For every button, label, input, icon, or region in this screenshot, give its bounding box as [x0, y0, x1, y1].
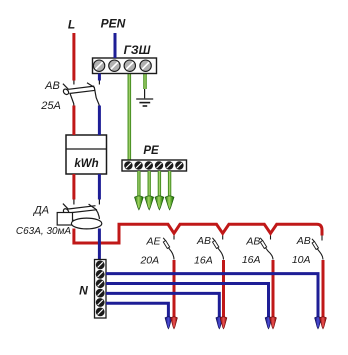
svg-text:10А: 10А — [292, 254, 311, 266]
svg-text:АВ: АВ — [196, 235, 211, 247]
wire N to circuit 3 — [106, 284, 269, 319]
arrow L circuit 3 — [270, 317, 277, 329]
actuator ring — [62, 88, 69, 96]
pole L top stub — [73, 81, 75, 85]
pole N top stub — [98, 200, 100, 205]
PE screw 5 — [165, 161, 173, 169]
pole L top stub — [73, 200, 75, 205]
arrow PE outgoing 1 — [135, 196, 144, 210]
ГЗШ screw terminal 2 — [109, 60, 120, 71]
test resistor box — [57, 213, 72, 226]
wire L phase feed (top) — [72, 33, 75, 81]
blade with release flag — [312, 239, 314, 242]
wire N breaker to kWh — [98, 106, 101, 136]
svg-text:25А: 25А — [40, 100, 61, 112]
pole N blade — [87, 83, 99, 106]
branch breaker АВ 16А (2) — [212, 234, 223, 260]
wire L branch 4 drop — [322, 260, 325, 318]
svg-text:L: L — [68, 18, 75, 32]
svg-text:ГЗШ: ГЗШ — [124, 43, 151, 57]
wire L distribution bus with branch taps — [118, 224, 323, 235]
arrow L circuit 1 — [171, 317, 178, 329]
wire PEN feed — [114, 33, 117, 58]
wire N to circuit 1 — [106, 303, 168, 318]
svg-text:АВ: АВ — [245, 236, 260, 248]
arrow N circuit 3 — [265, 317, 272, 329]
blade with release flag — [260, 238, 262, 241]
PE screw 2 — [134, 161, 142, 169]
svg-text:АЕ: АЕ — [145, 236, 161, 248]
pole N top stub — [98, 81, 100, 85]
PE screw 4 — [155, 161, 163, 169]
pole L lower lead — [70, 213, 74, 224]
wire L branch 3 drop — [272, 260, 275, 318]
pole N blade — [89, 204, 100, 219]
arrow L circuit 4 — [320, 317, 327, 329]
actuator ring — [62, 208, 69, 216]
wire N kWh to RCD — [98, 174, 101, 200]
svg-text:PE: PE — [143, 145, 159, 157]
crossbar — [68, 206, 97, 213]
svg-text:16А: 16А — [194, 255, 213, 267]
terminal bar PE — [122, 160, 187, 171]
top stub — [173, 234, 175, 240]
wire PE outgoing 1 — [137, 171, 140, 198]
branch breaker АЕ 20А — [163, 234, 174, 260]
branch breaker АВ 16А (3) — [260, 234, 273, 260]
PE screw 6 — [175, 161, 183, 169]
blade with release flag — [163, 238, 165, 241]
busbar ГЗШ — [93, 58, 157, 74]
top stub — [270, 234, 272, 240]
svg-text:16А: 16А — [242, 254, 261, 266]
wire L kWh to RCD — [72, 174, 75, 200]
wire N from ГЗШ terminal 1 to breaker — [98, 74, 101, 81]
ГЗШ screw terminal 3 — [124, 60, 135, 71]
wire PE outgoing 3 — [158, 171, 161, 198]
N screw 4 — [96, 289, 105, 298]
svg-text:20А: 20А — [139, 255, 159, 267]
svg-text:АВ: АВ — [296, 235, 311, 247]
pole L lower lead — [70, 94, 74, 106]
ground symbol — [136, 89, 153, 106]
wire PE green from ГЗШ terminal 3 to PE bar — [128, 72, 132, 160]
arrow PE outgoing 3 — [155, 196, 164, 210]
N screw 3 — [96, 279, 105, 288]
N screw 5 — [96, 298, 105, 307]
ГЗШ screw terminal 4 — [140, 60, 151, 71]
N screw 2 — [96, 270, 105, 279]
arrow N circuit 4 — [315, 317, 322, 329]
wire PE outgoing 2 — [147, 171, 150, 198]
wire L branch 1 drop — [173, 260, 176, 318]
svg-text:С63А, 30мА: С63А, 30мА — [16, 226, 72, 237]
wire earthing green from ГЗШ terminal 4 — [143, 72, 147, 89]
svg-text:PEN: PEN — [101, 17, 126, 31]
arrow L circuit 2 — [220, 317, 227, 329]
ГЗШ screw terminal 1 — [93, 60, 104, 71]
PE screw 3 — [145, 161, 153, 169]
pole L blade — [63, 84, 69, 90]
wire N to circuit 4 — [106, 274, 318, 318]
svg-text:ДА: ДА — [32, 205, 49, 217]
wire N to circuit 2 — [106, 293, 219, 318]
arrow PE outgoing 4 — [165, 196, 174, 210]
terminal bar N — [95, 260, 107, 319]
pole L blade — [63, 204, 69, 210]
blade with release flag — [212, 238, 214, 241]
svg-text:kWh: kWh — [74, 158, 98, 170]
wire L branch 2 drop — [222, 260, 225, 318]
wire L breaker to kWh — [72, 106, 75, 136]
PE screw 1 — [124, 161, 132, 169]
svg-text:АВ: АВ — [44, 80, 60, 92]
branch breaker АВ 10А (4) — [312, 235, 323, 260]
svg-text:N: N — [79, 284, 88, 298]
arrow PE outgoing 2 — [145, 196, 154, 210]
top stub — [222, 234, 224, 240]
kWh meter box — [66, 135, 107, 174]
arrow N circuit 1 — [165, 317, 172, 329]
differential transformer toroid — [71, 218, 101, 229]
top stub — [321, 235, 323, 241]
wire N RCD output to N bar — [98, 229, 101, 261]
circuit breaker АВ 25А (2-pole) — [62, 81, 99, 107]
RCD ДА С63А 30мА (2-pole differential) — [57, 200, 102, 229]
N screw 6 — [96, 308, 105, 317]
N screw 1 — [96, 261, 105, 270]
wire L RCD output to bus riser — [74, 224, 119, 243]
crossbar — [69, 86, 96, 93]
arrow N circuit 2 — [216, 317, 223, 329]
wire PE outgoing 4 — [168, 171, 171, 198]
